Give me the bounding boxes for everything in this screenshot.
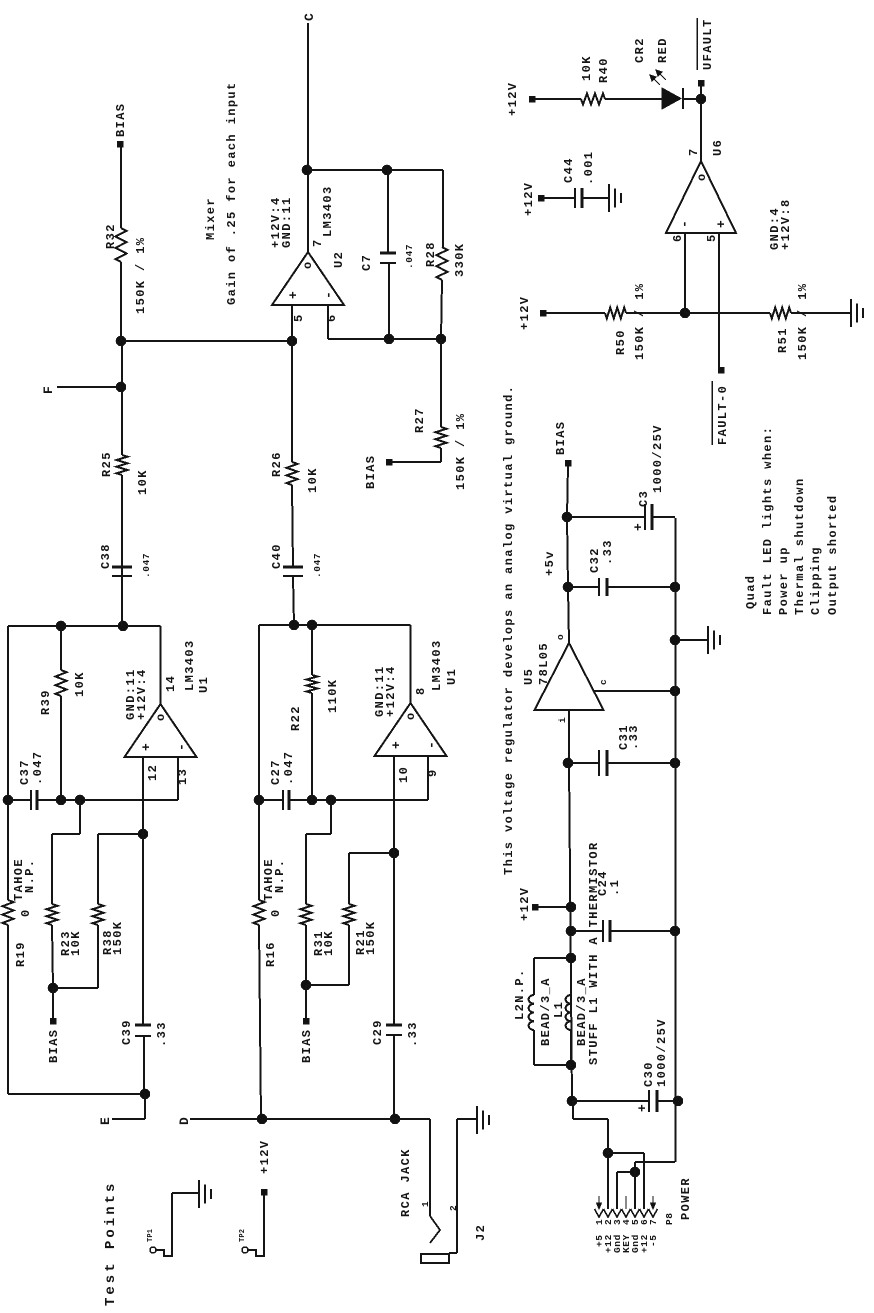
svg-text:10K: 10K [322,930,336,956]
wire mix bus vertical [121,340,292,342]
label RCA pin 2 [448,1205,459,1211]
svg-text:-: - [174,742,189,751]
wire P8 pin3 [617,1172,635,1209]
label R26 [270,451,284,477]
wire stage1 left edge [8,925,145,1094]
label RCA JACK [399,1148,413,1217]
svg-text:+12V: +12V [518,887,532,921]
svg-text:U2: U2 [332,251,346,268]
label Output shorted [826,495,840,615]
label Clipping [809,546,823,615]
terminal BIAS stage1 [50,1018,56,1024]
wire C29 to D node [393,1035,395,1119]
wire pin5 to bus [635,1162,675,1172]
label L2 value [539,977,553,1046]
wire R25 to bus junction [121,341,123,455]
label U1a pin 12 [146,764,160,781]
label U1a LM3403 [183,639,197,691]
svg-text:BIAS: BIAS [300,1029,314,1063]
svg-text:o: o [555,634,566,640]
label U1a pins + - [139,742,189,751]
wire R21 branch [349,853,394,904]
label Fault note [761,426,775,615]
wire BIAS stub stage2 [305,985,307,1018]
svg-text:Output shorted: Output shorted [826,495,840,615]
label net D [177,1116,192,1125]
label R50 value [633,283,647,360]
label U1b output o [404,711,418,720]
label Gain note [225,81,239,305]
wire main +12 rail [569,763,572,1101]
label R39 [39,689,53,715]
svg-text:C: C [302,12,317,21]
svg-text:L2N.P.: L2N.P. [513,968,527,1020]
svg-text:+12V: +12V [258,1140,272,1174]
label R16 value 0 TAHOE [262,858,287,917]
capacitor C40 plates [283,567,303,576]
label L1 value [575,977,589,1046]
svg-text:5: 5 [292,313,306,322]
op-amp U2 triangle [272,252,344,305]
label U1a pin 13 [176,768,190,785]
svg-text:.33: .33 [155,1021,169,1047]
node C31 bus junction [670,758,680,768]
label BIAS R32 [114,103,128,137]
svg-text:o: o [695,172,709,181]
node mix bus junction [116,336,126,346]
label C38 [99,543,152,578]
wire pin2-pin6 link [608,1153,644,1209]
svg-text:R27: R27 [413,407,427,433]
label U1a pin 14 [164,675,178,692]
svg-text:+12V:4: +12V:4 [135,668,149,720]
resistor R27 [436,427,447,448]
svg-text:9: 9 [426,768,440,777]
RCA jack shell [421,1254,449,1263]
label R31 [312,930,326,956]
wire R38 branch [98,834,143,904]
label R40 [597,57,611,83]
svg-text:R22: R22 [289,705,303,731]
terminal +12V C44 [538,195,544,201]
node R38 branch junction [138,829,148,839]
label U5 pin i [557,717,568,723]
svg-text:7: 7 [687,147,701,156]
wire summing column stage1 lower [37,799,178,801]
label BIAS stage2 [300,1029,314,1063]
svg-text:1: 1 [420,1201,431,1207]
wire summing column stage2 upper [259,799,283,801]
label CR2 [633,37,647,63]
label +12V R50 [518,296,532,330]
label U1a refdes U1 [197,676,211,693]
wire R31-R21 tie [306,984,349,986]
svg-text:R25: R25 [100,451,114,477]
label R28 value [453,243,467,277]
svg-text:12: 12 [146,764,160,781]
svg-text:C30: C30 [642,1061,656,1087]
wire +12V tap [538,906,571,908]
wire R50 top [546,312,605,314]
capacitor C27 plates [283,790,289,810]
node C30 bus junction [673,1096,683,1106]
wire C7 top lead [387,170,389,253]
label Power up [777,546,791,615]
label U2 output o [301,260,315,269]
label C37 [18,751,45,785]
node R22 summing junction [307,795,317,805]
label C40 [270,543,323,578]
label C3 value [651,424,665,493]
wire feedback rail stage1 [8,626,161,900]
wire pin5 chain to R26 [291,341,293,462]
wire analog ground bus [675,518,677,1162]
wire U6 output [700,99,702,161]
svg-text:C32: C32 [588,547,602,573]
svg-text:.33: .33 [406,1021,420,1047]
svg-text:U1: U1 [445,668,459,685]
terminal +12V rail tap [532,904,538,910]
label CR2 RED [656,37,670,63]
svg-text:LM3403: LM3403 [321,185,335,237]
svg-text:R19: R19 [14,941,28,967]
op-amp style regulator U5 triangle [535,643,604,710]
wire R27 to BIAS [392,448,441,462]
svg-text:+12V: +12V [506,82,520,116]
label BIAS R27 [364,455,378,489]
svg-text:F: F [41,385,56,394]
capacitor C29 plates [386,1025,402,1035]
label R38 [101,929,115,955]
label R51 [776,327,790,353]
node U2 output junction [302,165,312,175]
label +12V TP2 [258,1140,272,1174]
svg-text:FAULT-0: FAULT-0 [716,385,730,445]
label R16 [264,941,278,967]
connector pin7 stub arrow [651,1196,656,1209]
label U5 pin o [555,634,566,640]
wire U2 feedback vertical [308,169,443,171]
label P8 pin3 Gnd [612,1234,623,1253]
svg-text:330K: 330K [453,243,467,277]
svg-text:.047: .047 [31,751,45,785]
node C32 bus junction [670,582,680,592]
node R31 R21 tie [301,980,311,990]
wire summing column stage2 lower [289,799,428,801]
svg-text:R26: R26 [270,451,284,477]
node D stage2 tap [257,1114,267,1124]
node D junction C29 [390,1114,400,1124]
wire R40 to LED [605,98,662,100]
svg-text:TP2: TP2 [239,1229,247,1242]
svg-text:7: 7 [311,238,325,247]
wire R21 bottom lead [348,925,350,985]
wire U6 pin5 FAULT [718,233,720,367]
wire C40 to stage2 rail [293,576,294,625]
svg-text:Power up: Power up [777,546,791,615]
label C29 [371,1019,420,1047]
LED arrows [650,70,666,85]
resistor R51 [770,308,791,319]
svg-text:10K: 10K [306,467,320,493]
svg-text:2: 2 [448,1205,459,1211]
label P8 pin numbers [594,1219,659,1225]
svg-text:R50: R50 [614,329,628,355]
wire R23 bottom lead [52,925,53,988]
svg-text:10K: 10K [73,671,87,697]
svg-text:7: 7 [648,1219,659,1225]
resistor R26 [287,462,298,485]
label thermistor note [587,841,601,1065]
svg-text:.33: .33 [627,724,641,750]
svg-text:.047: .047 [404,244,415,269]
label RCA pin 1 [420,1201,431,1207]
svg-text:+12V: +12V [518,296,532,330]
node stage1 chain tap [118,621,128,631]
label C24 [596,870,622,896]
svg-text:o: o [154,712,168,721]
label P8 pin1 +5 [594,1234,605,1247]
label L1 refdes [552,1001,566,1018]
svg-text:TP1: TP1 [147,1229,155,1242]
svg-text:14: 14 [164,675,178,692]
svg-text:-: - [677,219,692,228]
svg-text:R32: R32 [104,223,118,249]
label R50 [614,329,628,355]
svg-text:CR2: CR2 [633,37,647,63]
label R27 value [454,413,468,490]
label R25 value [136,469,150,495]
wire net C [307,23,309,170]
svg-text:+12V: +12V [522,182,536,216]
svg-text:.001: .001 [582,151,596,185]
svg-text:13: 13 [176,768,190,785]
wire E stub [112,1094,145,1119]
node E junction [140,1089,150,1099]
resistor R22 feedback [307,625,318,800]
wire R31 bottom lead [305,925,307,985]
label U1b refdes U1 [445,668,459,685]
capacitor C38 plates [112,567,132,576]
op-amp U6 triangle [666,161,736,233]
node R31 branch junction [326,795,336,805]
label UFAULT [701,18,715,70]
svg-text:This voltage regulator develop: This voltage regulator develops an analo… [502,385,516,875]
resistor R40 [581,94,605,105]
svg-text:10K: 10K [69,930,83,956]
connector P8 pins sawtooth [595,1209,658,1217]
wire U2 output [307,170,309,252]
label R21 [354,929,368,955]
svg-text:BIAS: BIAS [364,455,378,489]
node R23 R38 tie [48,983,58,993]
label U1a output o [154,712,168,721]
wire R50 to junction [626,312,685,314]
node C3 top junction [562,512,572,522]
terminal UFAULT [698,80,704,86]
svg-text:.047: .047 [312,553,323,578]
label C39 [120,1019,169,1047]
ground R51 [851,299,863,327]
wire pin12 lead [142,757,144,1025]
terminal +12V R50 [540,310,546,316]
diode CR2 LED [662,88,683,109]
wire TP1 to ground [156,1193,199,1256]
svg-text:BEAD/3_A: BEAD/3_A [575,977,589,1046]
label Quad note [744,575,758,609]
svg-text:+: + [389,740,404,749]
svg-text:POWER: POWER [679,1177,693,1220]
capacitor C3 electrolytic [567,504,675,530]
svg-text:0: 0 [19,908,33,917]
label C44 +12V [522,182,536,216]
label R40 value 10K [580,55,594,81]
wire RCA pin1 [429,1119,431,1216]
label P8 refdes [664,1212,675,1225]
label C31 [617,724,641,750]
svg-text:150K / 1%: 150K / 1% [796,283,810,360]
node R39 rail junction [56,621,66,631]
resistor R23 [47,904,58,925]
wire BIAS C3 link [567,465,568,517]
svg-text:78L05: 78L05 [537,642,551,685]
svg-text:BEAD/3_A: BEAD/3_A [539,977,553,1046]
wire R51 to ground [791,312,851,314]
wire R31 branch [306,800,331,904]
node C7 top junction [382,165,392,175]
terminal BIAS R32 [117,141,123,147]
svg-text:LM3403: LM3403 [183,639,197,691]
ground J2 shell [477,1106,489,1134]
label R22 value [326,679,340,713]
node R22 rail junction [307,620,317,630]
svg-text:Clipping: Clipping [809,546,823,615]
node L2 right junction [566,953,576,963]
svg-text:RED: RED [656,37,670,63]
node C7 bottom junction [384,334,394,344]
svg-text:R51: R51 [776,327,790,353]
label net E [98,1116,113,1125]
label U6 pin 7 [687,147,701,156]
label P8 pin6 +12 [639,1234,650,1253]
svg-text:Gain of .25 for each input: Gain of .25 for each input [225,81,239,305]
node junction C37 tap on rail [3,795,13,805]
wire pin2 to C30 rail [573,1101,608,1153]
svg-text:Quad: Quad [744,575,758,609]
label C32 [588,539,615,573]
label U2 +12V GND [269,196,294,248]
label R26 value [306,467,320,493]
wire R28 top lead [442,170,444,247]
svg-text:.047: .047 [282,751,296,785]
svg-text:110K: 110K [326,679,340,713]
label R27 [413,407,427,433]
capacitor C44 [544,188,609,208]
svg-text:C7: C7 [360,254,374,271]
svg-text:C44: C44 [562,157,576,183]
resistor R31 [301,904,312,925]
label R23 [59,930,73,956]
inductor L1 ferrite bead [566,958,571,1065]
wire feedback rail stage2 [259,625,411,900]
node U5 common bus junction [670,686,680,696]
svg-text:-: - [321,290,336,299]
label U5 refdes [522,668,536,685]
label U2 pin 5 [292,313,306,322]
svg-text:.047: .047 [141,553,152,578]
label U1a GND +12V [124,668,149,720]
svg-text:+: + [286,290,301,299]
resistor R28 [437,247,448,280]
label P8 pin5 Gnd [630,1234,641,1253]
label C30 [642,1061,656,1087]
svg-text:LM3403: LM3403 [430,639,444,691]
wire stage2 left edge [259,925,261,1119]
label +12V R40 [506,82,520,116]
terminal FAULT-0 [718,367,724,373]
node stage2 chain tap [289,620,299,630]
svg-text:1000/25V: 1000/25V [655,1018,669,1087]
svg-text:i: i [557,717,568,723]
svg-text:C29: C29 [371,1019,385,1045]
svg-text:150K / 1%: 150K / 1% [633,283,647,360]
svg-text:.1: .1 [608,879,622,896]
label R21 value [364,921,378,955]
wire net D vertical [190,1118,430,1120]
label Thermal shutdown [793,477,807,615]
wire U2 pin6 [328,305,441,339]
svg-text:+5v: +5v [543,550,557,576]
svg-text:C37: C37 [18,759,32,785]
label U1b pin 9 [426,768,440,777]
svg-text:+: + [631,522,646,531]
terminal BIAS U5 [565,460,571,466]
node C27 tap stage2 [254,795,264,805]
label U6 pins - + [677,219,729,228]
svg-text:150K / 1%: 150K / 1% [454,413,468,490]
node F junction [116,382,126,392]
node C32 top junction [563,582,573,592]
wire R51 top [685,312,770,314]
resistor R16 (series input loop) [254,900,265,925]
svg-text:J2: J2 [474,1224,488,1241]
svg-text:U5: U5 [522,668,536,685]
label U6 refdes [711,139,725,156]
capacitor C24 [571,920,675,942]
label FAULT-0 [716,385,730,445]
label BIAS U5 [554,421,568,455]
wire U2 pin5 up [291,305,293,341]
label U2 LM3403 [321,185,335,237]
label net F [41,385,56,394]
label R19 value 0 TAHOE [12,858,37,917]
svg-text:BIAS: BIAS [114,103,128,137]
capacitor C37 plates [31,790,37,810]
label R23 value [69,930,83,956]
svg-text:R39: R39 [39,689,53,715]
wire C7 bottom lead [388,263,390,339]
svg-text:C40: C40 [270,543,284,569]
svg-text:+: + [139,742,154,751]
label U2 pin 6 [325,313,339,322]
svg-text:BIAS: BIAS [554,421,568,455]
svg-text:6: 6 [671,233,685,242]
connector pin1 stub arrow [597,1196,602,1209]
resistor R39 feedback [56,626,67,800]
svg-text:-: - [424,740,439,749]
label P8 pin4 KEY [621,1234,632,1253]
label FAULT-0 overline [711,381,713,445]
